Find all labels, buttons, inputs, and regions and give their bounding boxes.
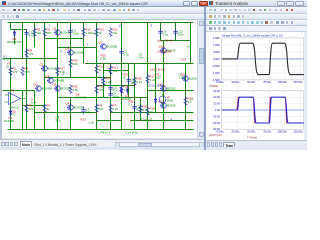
svg-text:30.00: 30.00 — [213, 88, 220, 92]
junction top rail x44 — [44, 22, 45, 23]
left bottom tab bar — [0, 139, 209, 147]
svg-text:4.7k: 4.7k — [25, 70, 31, 74]
junction top rail x110 — [110, 22, 111, 23]
svg-text:DW2903M: DW2903M — [158, 50, 172, 54]
resistor R1 — [9, 67, 18, 77]
svg-text:10: 10 — [150, 110, 154, 114]
capacitor C5 — [132, 104, 143, 112]
svg-text:1.5k: 1.5k — [124, 88, 130, 92]
svg-text:T (Secs): T (Secs) — [247, 135, 257, 139]
resistor R5 — [43, 104, 51, 114]
wire node N15 segment — [161, 40, 191, 42]
svg-text:6.8k: 6.8k — [73, 88, 79, 92]
junction bottom rail x121 — [121, 129, 122, 130]
junction top rail x160 — [160, 22, 161, 23]
resistor R32 — [139, 105, 149, 115]
wire V x26 c — [26, 91, 28, 130]
svg-text:50.00u: 50.00u — [247, 129, 255, 133]
wire V x44 a — [44, 23, 46, 59]
capacitor C11 — [108, 85, 118, 93]
svg-text:Q8: Q8 — [46, 75, 50, 79]
svg-text:Vitrage Mod HB_Ci_vor_20kHz sq: Vitrage Mod HB_Ci_vor_20kHz square.CIR (… — [221, 33, 282, 37]
wire V x70 c — [70, 98, 72, 130]
transistor Q11 — [181, 73, 198, 82]
junction x57 y58 — [57, 58, 58, 59]
wire node N7 segment — [111, 112, 194, 114]
capacitor C13 — [173, 29, 184, 37]
svg-text:OUT: OUT — [181, 58, 187, 62]
svg-text:6: 6 — [61, 50, 63, 54]
junction x147 y63 — [147, 63, 148, 64]
svg-text:0.22: 0.22 — [137, 80, 143, 84]
resistor R16 — [133, 77, 143, 87]
wire node N2 segment — [86, 63, 194, 65]
op-amp X1 — [5, 89, 27, 110]
wire V x110 b — [110, 78, 112, 130]
resistor R6 — [95, 104, 104, 114]
transistor Q3 — [53, 83, 72, 92]
svg-text:BC556B: BC556B — [74, 51, 85, 55]
junction top rail x121 — [121, 22, 122, 23]
svg-text:BD250: BD250 — [167, 87, 176, 91]
junction x57 y47 — [57, 47, 58, 48]
junction x185 y90 — [185, 90, 186, 91]
wire V x110 a — [110, 64, 112, 78]
wire V x10 c — [10, 91, 12, 130]
right transient analysis window — [204, 0, 307, 150]
wire V x26 a — [26, 30, 28, 59]
wire V x185 a — [185, 64, 187, 91]
junction x83 y38 — [83, 38, 84, 39]
junction x155 y90 — [155, 90, 156, 91]
transistor Q12 — [159, 100, 176, 109]
resistor R10 — [82, 28, 96, 38]
svg-text:BD249: BD249 — [167, 104, 176, 108]
voltage source V5 — [159, 94, 173, 106]
svg-text:0.47: 0.47 — [143, 108, 149, 112]
wire node N17 segment — [104, 70, 129, 72]
resistor R9 — [43, 28, 52, 38]
svg-text:100: 100 — [156, 76, 161, 80]
transistor Q4 — [66, 102, 85, 111]
junction bottom rail x96 — [96, 129, 97, 130]
junction top rail x147 — [147, 22, 148, 23]
wire node N12 segment — [97, 120, 122, 122]
wire node N11 segment — [23, 105, 45, 107]
right title bar — [208, 0, 307, 7]
junction bottom rail x34 — [34, 129, 35, 130]
svg-text:0.00: 0.00 — [215, 108, 221, 112]
wire node N1 segment — [3, 58, 58, 60]
wire node N14 segment — [131, 120, 194, 122]
wire node N9 segment — [58, 47, 97, 49]
svg-text:R23: R23 — [81, 118, 87, 122]
transistor Q7 — [99, 41, 118, 50]
junction x10 y90 — [10, 90, 11, 91]
junction top rail x10 — [10, 22, 11, 23]
wire ground bottom rail — [8, 129, 194, 131]
left window title bar — [0, 0, 208, 7]
svg-text:-20.00: -20.00 — [212, 120, 220, 124]
wire V x70 b — [70, 48, 72, 78]
schematic canvas — [2, 20, 197, 138]
resistor R4 — [25, 104, 34, 114]
wire node N16 segment — [97, 85, 135, 87]
junction x147 y90 — [147, 90, 148, 91]
svg-text:2.2k: 2.2k — [113, 107, 119, 111]
svg-text:0.50K: 0.50K — [213, 49, 220, 53]
wire V x134 a — [134, 64, 136, 98]
svg-text:Q5: Q5 — [53, 27, 57, 31]
wire V x140 — [140, 98, 142, 121]
wire V x190 — [190, 23, 192, 64]
resistor R28 — [120, 85, 130, 95]
left schematic window — [0, 0, 209, 150]
resistor R19 — [184, 97, 193, 107]
svg-text:1.50K: 1.50K — [213, 35, 220, 39]
svg-text:20.00: 20.00 — [213, 95, 220, 99]
junction bottom rail x134 — [134, 129, 135, 130]
wire V x70 a — [70, 23, 72, 48]
wire V x103 — [103, 64, 105, 98]
svg-text:v(IN2D): v(IN2D) — [209, 84, 218, 88]
schematic vertical scrollbar — [197, 20, 203, 138]
zoom strip — [206, 26, 307, 32]
wire V x185 b — [185, 91, 187, 113]
svg-text:SINE: SINE — [167, 99, 174, 103]
junction top rail x190 — [190, 22, 191, 23]
transistor Q1 — [40, 63, 59, 72]
capacitor C10 — [24, 30, 35, 38]
svg-text:75.00u: 75.00u — [263, 129, 271, 133]
junction x14 y29 — [14, 29, 15, 30]
svg-text:BC546B: BC546B — [76, 96, 87, 100]
junction x140 y97 — [140, 97, 141, 98]
junction x22 y105 — [22, 105, 23, 106]
resistor R31 — [102, 77, 112, 87]
svg-text:100.00u: 100.00u — [277, 129, 287, 133]
right toolbars — [206, 7, 307, 14]
svg-text:+U: +U — [187, 45, 191, 49]
transistor Q8 — [46, 75, 65, 84]
svg-text:C14 100n: C14 100n — [126, 131, 139, 135]
junction x96 y112 — [96, 112, 97, 113]
transistor Q5 — [53, 27, 72, 36]
junction x163 y90 — [163, 90, 164, 91]
svg-text:22u: 22u — [56, 119, 61, 123]
svg-text:47k: 47k — [29, 52, 34, 56]
junction top rail x83 — [83, 22, 84, 23]
resistor R2 — [21, 67, 31, 77]
transistor Q13 — [159, 83, 176, 92]
wire V x26 b — [26, 59, 28, 91]
wire V x185 c — [185, 113, 187, 130]
svg-text:75.00u: 75.00u — [263, 80, 271, 84]
wire V x96 c — [96, 78, 98, 130]
svg-text:680: 680 — [47, 31, 52, 35]
svg-text:Q2: Q2 — [34, 83, 38, 87]
svg-text:LM318: LM318 — [10, 106, 19, 110]
resistor R14 — [95, 65, 104, 75]
wire V x14 — [14, 30, 16, 45]
capacitor C4 — [108, 91, 119, 99]
resistor R18 — [146, 107, 155, 117]
wire V x134 b — [134, 98, 136, 130]
right bottom tab bar — [206, 140, 307, 148]
wire V x175 — [175, 23, 177, 41]
svg-text:Ipu = 36 kH: Ipu = 36 kH — [158, 39, 173, 43]
wire V x121 b — [121, 64, 123, 130]
left toolbar row 2 — [0, 14, 209, 20]
junction bottom rail x57 — [57, 129, 58, 130]
transistor Q10 — [159, 45, 176, 54]
resistor R17 — [146, 75, 156, 85]
svg-text:-U: -U — [190, 98, 193, 102]
junction x44 y38 — [44, 38, 45, 39]
wire V x83 b — [83, 39, 85, 64]
wire V x147 c — [147, 98, 149, 130]
resistor R8 — [25, 49, 34, 59]
wire V x163 b — [163, 64, 165, 91]
junction bottom rail x70 — [70, 129, 71, 130]
svg-text:BZX84C9V1: BZX84C9V1 — [8, 40, 24, 44]
svg-text:10k: 10k — [113, 69, 118, 73]
svg-text:10n: 10n — [131, 81, 136, 85]
junction x121 y112 — [121, 112, 122, 113]
svg-text:X1: X1 — [11, 89, 15, 93]
junction x134 y85 — [134, 85, 135, 86]
junction x110 y112 — [110, 112, 111, 113]
wire V x22 b — [22, 91, 24, 130]
svg-text:1.0u: 1.0u — [163, 33, 169, 37]
zener diode D4 — [8, 30, 24, 45]
junction x128 y70 — [128, 70, 129, 71]
wire V x147 b — [147, 64, 149, 98]
svg-text:100n: 100n — [113, 95, 120, 99]
svg-text:2mA: 2mA — [31, 101, 37, 105]
right v scrollbar — [304, 32, 307, 140]
junction x103 y63 — [103, 63, 104, 64]
wire node N4 segment — [3, 90, 35, 92]
svg-text:10.00: 10.00 — [213, 101, 220, 105]
junction x190 y63 — [190, 63, 191, 64]
junction bottom rail x185 — [185, 129, 186, 130]
left toolbar row 1 — [0, 7, 209, 14]
wire node N10 segment — [148, 90, 194, 92]
svg-text:1.2k: 1.2k — [106, 80, 112, 84]
svg-text:470: 470 — [13, 70, 18, 74]
svg-text:47n: 47n — [113, 89, 118, 93]
junction x134 y97 — [134, 97, 135, 98]
wire V x34 a — [34, 23, 36, 48]
wire V x147 a — [147, 23, 149, 64]
junction x155 y63 — [155, 63, 156, 64]
diode D3 — [121, 87, 132, 102]
junction x96 y120 — [96, 120, 97, 121]
svg-text:BC546B: BC546B — [42, 87, 53, 91]
junction x10 y58 — [10, 58, 11, 59]
wire V x163 a — [163, 41, 165, 64]
wire V x10 b — [10, 59, 12, 91]
svg-text:R33 0.1: R33 0.1 — [101, 131, 112, 135]
junction x22 y58 — [22, 58, 23, 59]
junction x96 y77 — [96, 77, 97, 78]
svg-text:100: 100 — [99, 88, 104, 92]
svg-text:33k: 33k — [37, 31, 42, 35]
resistor R7 — [109, 104, 119, 114]
svg-text:3.3k: 3.3k — [60, 70, 66, 74]
wire V x155 b — [155, 91, 157, 113]
svg-text:(21.6 5mA): (21.6 5mA) — [151, 68, 165, 72]
svg-text:BC556B: BC556B — [74, 106, 85, 110]
junction x26 y90 — [26, 90, 27, 91]
wire V x57 b — [57, 59, 59, 98]
junction x121 y63 — [121, 63, 122, 64]
junction x70 y112 — [70, 112, 71, 113]
junction x96 y47 — [96, 47, 97, 48]
wire node N8 segment — [45, 38, 84, 40]
junction x44 y58 — [44, 58, 45, 59]
resistor R11 — [109, 28, 118, 38]
wire V x163 c — [163, 91, 165, 130]
svg-text:25.00u: 25.00u — [232, 80, 240, 84]
svg-text:BC546B: BC546B — [61, 31, 72, 35]
wire V x57 a — [57, 23, 59, 59]
svg-text:2k: 2k — [99, 31, 103, 35]
wire node N13 segment — [11, 29, 27, 31]
svg-text:125.00u: 125.00u — [293, 129, 303, 133]
junction bottom rail x10 — [10, 129, 11, 130]
capacitor C12 — [126, 77, 136, 85]
svg-text:15: 15 — [6, 65, 10, 69]
junction x70 y77 — [70, 77, 71, 78]
resistor R26 — [69, 85, 79, 95]
wire V x155 a — [155, 64, 157, 91]
svg-text:7: 7 — [87, 43, 89, 47]
junction top rail x22 — [22, 22, 23, 23]
svg-text:Q7: Q7 — [99, 41, 103, 45]
junction bottom rail x147 — [147, 129, 148, 130]
transistor Q6 — [66, 47, 85, 56]
svg-text:2.2n: 2.2n — [124, 53, 130, 57]
diode D1 — [4, 109, 15, 124]
wire V x22 a — [22, 23, 24, 59]
wire node N5 segment — [58, 97, 148, 99]
junction x44 y112 — [44, 112, 45, 113]
junction bottom rail x22 — [22, 129, 23, 130]
svg-text:R24 0.33: R24 0.33 — [141, 118, 153, 122]
svg-text:10n: 10n — [139, 56, 144, 60]
svg-text:2.2k: 2.2k — [89, 121, 95, 125]
junction bottom rail x163 — [163, 129, 164, 130]
wire V x44 b — [44, 59, 46, 78]
svg-text:22k: 22k — [29, 107, 34, 111]
junction x85 y63 — [85, 63, 86, 64]
svg-text:1.0u: 1.0u — [179, 76, 185, 80]
resistor R27 — [56, 67, 66, 77]
junction x163 y63 — [163, 63, 164, 64]
svg-text:1k: 1k — [47, 107, 51, 111]
svg-text:0.1: 0.1 — [129, 103, 133, 107]
junction x110 y77 — [110, 77, 111, 78]
capacitor C9 — [158, 29, 168, 37]
junction x26 y29 — [26, 29, 27, 30]
svg-text:6.8k: 6.8k — [101, 57, 107, 61]
junction bottom rail x44 — [44, 129, 45, 130]
junction x96 y85 — [96, 85, 97, 86]
svg-text:12: 12 — [119, 24, 123, 28]
svg-text:BD250: BD250 — [189, 77, 198, 81]
junction x140 y120 — [140, 120, 141, 121]
junction x44 y77 — [44, 77, 45, 78]
junction x57 y97 — [57, 97, 58, 98]
resistor R29 — [69, 59, 78, 69]
svg-text:Q10: Q10 — [159, 45, 165, 49]
svg-text:25.00u: 25.00u — [232, 129, 240, 133]
junction top rail x96 — [96, 22, 97, 23]
svg-text:-30.00: -30.00 — [212, 127, 220, 131]
junction x147 y97 — [147, 97, 148, 98]
junction top rail x70 — [70, 22, 71, 23]
svg-text:-10.00: -10.00 — [212, 114, 220, 118]
junction x185 y112 — [185, 112, 186, 113]
svg-text:820: 820 — [73, 62, 78, 66]
junction bottom rail x110 — [110, 129, 111, 130]
svg-text:1k: 1k — [99, 68, 103, 72]
junction x134 y63 — [134, 63, 135, 64]
svg-text:1.00K: 1.00K — [213, 42, 220, 46]
svg-text:100.00u: 100.00u — [277, 80, 287, 84]
junction x128 y63 — [128, 63, 129, 64]
svg-text:Q1: Q1 — [40, 63, 44, 67]
svg-text:-1.00K: -1.00K — [212, 70, 220, 74]
wire V x57 c — [57, 98, 59, 130]
wire V x83 a — [83, 23, 85, 39]
wire node N3 segment — [45, 77, 111, 79]
svg-text:50.00u: 50.00u — [247, 80, 255, 84]
junction x70 y47 — [70, 47, 71, 48]
junction x110 y63 — [110, 63, 111, 64]
junction x121 y120 — [121, 120, 122, 121]
wire V x160 — [160, 23, 162, 41]
svg-text:Q6: Q6 — [66, 47, 70, 51]
junction x159 y112 — [159, 112, 160, 113]
svg-text:Q4: Q4 — [66, 102, 70, 106]
svg-text:Q3: Q3 — [53, 83, 57, 87]
svg-text:1N4148: 1N4148 — [4, 119, 15, 123]
svg-text:v(OUT)/10: v(OUT)/10 — [209, 132, 222, 136]
junction top rail x57 — [57, 22, 58, 23]
transistor Q2 — [34, 83, 53, 92]
wire node N6 segment — [35, 112, 97, 114]
svg-text:-0.50K: -0.50K — [212, 63, 220, 67]
resistor R13 — [109, 66, 118, 76]
svg-text:0.00K: 0.00K — [213, 56, 220, 60]
resistor R12 — [95, 28, 104, 38]
svg-text:100n: 100n — [73, 32, 80, 36]
diode D2 — [120, 87, 124, 95]
junction x34 y112 — [34, 112, 35, 113]
capacitor C1 — [68, 28, 79, 36]
junction x103 y70 — [103, 70, 104, 71]
svg-text:BC546B: BC546B — [54, 79, 65, 83]
svg-text:0.00m: 0.00m — [216, 80, 224, 84]
diode D5 — [154, 97, 158, 105]
wire V x96 b — [96, 48, 98, 78]
wire V x34 b — [34, 91, 36, 130]
capacitor C3 — [81, 107, 91, 115]
wire V x96 a — [96, 23, 98, 48]
